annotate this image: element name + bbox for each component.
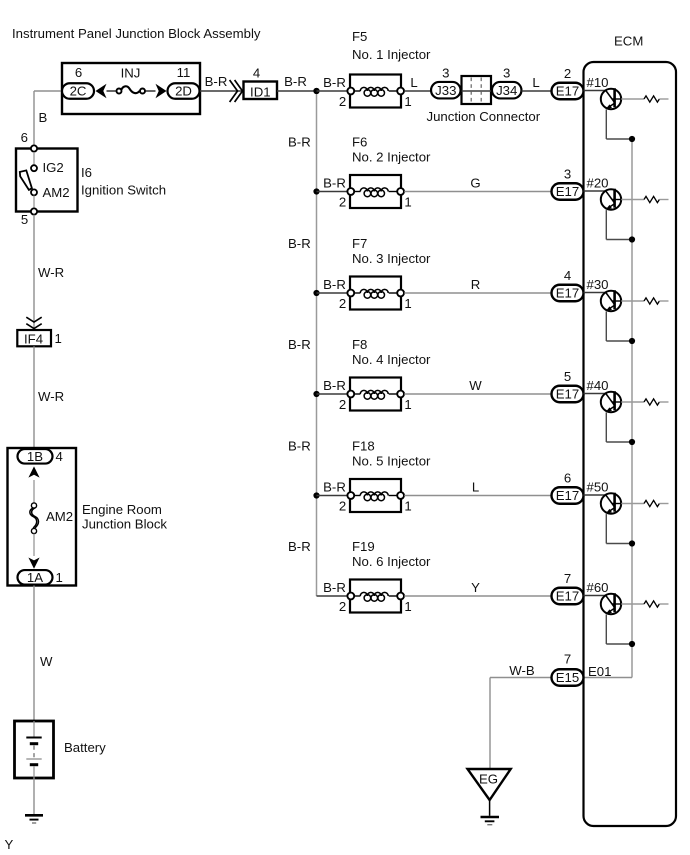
- wire from fuse to arrow: [145, 90, 155, 92]
- injector F6 coil: [353, 191, 360, 193]
- collector segment #60: [613, 603, 622, 605]
- svg-text:F7: F7: [352, 236, 367, 251]
- wire AM2 fuse to 1A: [33, 534, 35, 556]
- injector F8 coil: [353, 393, 360, 395]
- svg-text:R: R: [471, 277, 481, 292]
- wire B-R stub to F8: [317, 393, 351, 395]
- resistor wire #50: [621, 503, 644, 505]
- wire inside switch lower: [33, 196, 35, 209]
- injector F5 coil: [353, 90, 360, 92]
- fuse arrow right: [156, 84, 167, 99]
- wire W-R from IF4 to engine room junction block: [33, 346, 35, 448]
- wire L injector to J33: [404, 90, 431, 92]
- svg-text:7: 7: [564, 652, 571, 667]
- wire E17 to transistor base #20: [584, 190, 606, 192]
- svg-text:L: L: [532, 75, 539, 90]
- svg-text:3: 3: [503, 66, 510, 81]
- connector J34: [492, 82, 522, 99]
- svg-text:1: 1: [56, 570, 63, 585]
- injector F7 pin 1: [397, 290, 404, 297]
- connector 1A: [18, 570, 53, 585]
- resistor wire #40: [621, 401, 644, 403]
- wire E17 to transistor base #60: [584, 595, 606, 597]
- emitter wire #60: [605, 615, 607, 644]
- transistor #60: [601, 594, 621, 614]
- IG2 contact: [31, 165, 37, 171]
- svg-text:F5: F5: [352, 29, 367, 44]
- svg-text:J34: J34: [496, 83, 517, 98]
- connector J33: [431, 82, 461, 99]
- injector F6 box: [350, 175, 401, 208]
- EG ground symbol: [481, 816, 500, 819]
- wire down to EG ground: [489, 678, 491, 770]
- fuse INJ right terminal: [140, 89, 145, 94]
- injector F8 pin 2: [347, 391, 354, 398]
- switch pin 6 terminal: [31, 145, 37, 151]
- transistor #20: [601, 189, 621, 209]
- connector E17 row 2: [552, 183, 584, 200]
- node on bus for F18: [313, 492, 319, 498]
- wire W injector to E17: [404, 393, 551, 395]
- battery plate short 1: [30, 742, 38, 745]
- svg-text:W-B: W-B: [509, 663, 535, 678]
- svg-text:6: 6: [21, 130, 28, 145]
- svg-text:B-R: B-R: [323, 580, 346, 595]
- connector E17 row 3: [552, 285, 584, 302]
- svg-text:#10: #10: [587, 75, 609, 90]
- svg-text:EG: EG: [479, 772, 498, 787]
- collector segment #10: [613, 98, 622, 100]
- svg-text:2: 2: [339, 94, 346, 109]
- svg-text:F8: F8: [352, 337, 367, 352]
- svg-text:J33: J33: [435, 83, 456, 98]
- wire B down to ignition switch: [33, 91, 35, 148]
- wire G injector to E17: [404, 191, 551, 193]
- injector F8 pin 1: [397, 391, 404, 398]
- injector F6 pin 2: [347, 188, 354, 195]
- svg-text:B-R: B-R: [323, 480, 346, 495]
- svg-text:E17: E17: [556, 589, 579, 604]
- connector E17 row 5: [552, 487, 584, 504]
- svg-text:W: W: [40, 654, 53, 669]
- ground EG triangle: [468, 769, 511, 800]
- collector segment #50: [613, 503, 622, 505]
- svg-text:W: W: [469, 378, 482, 393]
- wire B-R stub to F6: [317, 191, 351, 193]
- injector F19 pin 1: [397, 593, 404, 600]
- svg-text:Instrument Panel Junction Bloc: Instrument Panel Junction Block Assembly: [12, 26, 261, 41]
- collector segment #40: [613, 401, 622, 403]
- svg-text:11: 11: [177, 65, 191, 80]
- node on bus for F5: [313, 88, 319, 94]
- fuse arrow up: [28, 466, 39, 477]
- wire W from junction block to battery: [33, 586, 35, 722]
- emitter wire #30: [605, 312, 607, 341]
- svg-text:B-R: B-R: [284, 74, 307, 89]
- battery box: [15, 721, 54, 778]
- resistor wire #60: [621, 603, 644, 605]
- switch lever: [20, 170, 32, 190]
- junction connector box: [462, 76, 492, 104]
- svg-text:B-R: B-R: [205, 74, 228, 89]
- svg-text:E17: E17: [556, 387, 579, 402]
- svg-text:IF4: IF4: [24, 332, 43, 347]
- svg-text:B-R: B-R: [288, 337, 311, 352]
- resistor #50: [644, 500, 659, 506]
- svg-text:2: 2: [564, 66, 571, 81]
- node emitter bus #20: [629, 236, 635, 242]
- svg-text:5: 5: [21, 212, 28, 227]
- connector 1B: [18, 449, 53, 464]
- injector F8 box: [350, 378, 401, 411]
- svg-text:I6: I6: [81, 165, 92, 180]
- svg-text:E17: E17: [556, 84, 579, 99]
- injector F5 box: [350, 75, 401, 108]
- wire W-B from E15 to ground corner: [490, 677, 552, 679]
- svg-text:#60: #60: [587, 580, 609, 595]
- engine room junction block box: [8, 448, 77, 586]
- wire B-R stub to F19: [317, 595, 351, 597]
- svg-text:B-R: B-R: [323, 75, 346, 90]
- svg-text:F18: F18: [352, 439, 375, 454]
- svg-text:3: 3: [442, 66, 449, 81]
- wire from 2C to left corner: [34, 90, 62, 92]
- wire E17 to transistor base #30: [584, 292, 606, 294]
- svg-text:W-R: W-R: [38, 265, 64, 280]
- resistor wire #20: [621, 199, 644, 201]
- svg-text:AM2: AM2: [43, 185, 70, 200]
- svg-text:#20: #20: [587, 176, 609, 191]
- svg-text:B-R: B-R: [323, 277, 346, 292]
- chevron connector above IF4: [26, 317, 41, 322]
- EG ground stem: [489, 800, 491, 816]
- collector segment #20: [613, 199, 622, 201]
- svg-text:1: 1: [404, 397, 411, 412]
- wire battery to ground: [33, 778, 35, 814]
- svg-text:ID1: ID1: [250, 85, 271, 100]
- svg-text:G: G: [470, 176, 480, 191]
- wire L J34 to E17: [522, 90, 552, 92]
- svg-text:IG2: IG2: [43, 160, 64, 175]
- fuse AM2 element: [30, 508, 37, 528]
- svg-text:E01: E01: [588, 664, 611, 679]
- node emitter bus #10: [629, 136, 635, 142]
- fuse IF4 box: [17, 330, 51, 346]
- ECM internal ground bus: [631, 139, 633, 678]
- battery plate long 2: [26, 758, 41, 760]
- svg-text:No. 6 Injector: No. 6 Injector: [352, 554, 431, 569]
- wire B-R stub to F18: [317, 495, 351, 497]
- connector E17 row 6: [552, 588, 584, 605]
- node on bus for F8: [313, 391, 319, 397]
- connector E17 row 4: [552, 386, 584, 403]
- svg-text:Engine Room: Engine Room: [82, 502, 162, 517]
- resistor wire #10: [621, 98, 644, 100]
- svg-text:E15: E15: [556, 670, 579, 685]
- svg-text:3: 3: [564, 167, 571, 182]
- connector E15: [552, 669, 584, 686]
- transistor #30: [601, 291, 621, 311]
- emitter wire #10: [605, 110, 607, 139]
- svg-text:B-R: B-R: [323, 176, 346, 191]
- svg-text:No. 4 Injector: No. 4 Injector: [352, 352, 431, 367]
- node emitter bus #40: [629, 439, 635, 445]
- instrument panel junction block box: [62, 63, 200, 114]
- svg-text:B: B: [39, 110, 48, 125]
- injector F5 pin 1: [397, 88, 404, 95]
- AM2 contact: [31, 189, 37, 195]
- node emitter bus #30: [629, 338, 635, 344]
- svg-text:F19: F19: [352, 539, 375, 554]
- svg-text:1: 1: [55, 331, 62, 346]
- wire to fuse INJ: [107, 90, 117, 92]
- wire Y injector to E17: [404, 595, 551, 597]
- battery ground symbol: [25, 814, 43, 817]
- junction connector dashed lines: [470, 78, 472, 103]
- ECM box: [584, 62, 677, 826]
- svg-text:1B: 1B: [27, 449, 43, 464]
- resistor #40: [644, 399, 659, 405]
- emitter wire #20: [605, 210, 607, 239]
- wire E17 to transistor base #50: [584, 494, 606, 496]
- svg-text:E17: E17: [556, 184, 579, 199]
- transistor #10: [601, 89, 621, 109]
- svg-text:1A: 1A: [27, 570, 43, 585]
- node on B-R bus top: [313, 88, 319, 94]
- collector segment #30: [613, 300, 622, 302]
- svg-text:F6: F6: [352, 135, 367, 150]
- connector 2C: [62, 83, 94, 99]
- svg-text:1: 1: [404, 195, 411, 210]
- inline chevron connector: [230, 80, 238, 102]
- svg-text:Junction Connector: Junction Connector: [427, 109, 541, 124]
- injector F19 box: [350, 580, 401, 613]
- svg-text:#30: #30: [587, 277, 609, 292]
- svg-text:L: L: [472, 480, 479, 495]
- svg-text:1: 1: [404, 94, 411, 109]
- emitter wire #50: [605, 514, 607, 543]
- svg-text:1: 1: [404, 296, 411, 311]
- transistor #50: [601, 493, 621, 513]
- svg-text:2: 2: [339, 499, 346, 514]
- wire inside switch upper: [33, 152, 35, 165]
- fuse INJ element: [121, 86, 139, 93]
- battery internal wire top: [33, 721, 35, 737]
- wire 1B to AM2 fuse: [33, 480, 35, 503]
- injector F18 box: [350, 479, 401, 512]
- svg-text:No. 5 Injector: No. 5 Injector: [352, 454, 431, 469]
- svg-text:No. 3 Injector: No. 3 Injector: [352, 251, 431, 266]
- injector F18 pin 2: [347, 492, 354, 499]
- svg-text:L: L: [410, 75, 417, 90]
- svg-text:2D: 2D: [175, 84, 192, 99]
- svg-text:7: 7: [564, 571, 571, 586]
- wire E17 to transistor base #10: [584, 90, 606, 92]
- fuse AM2 upper terminal: [31, 503, 36, 508]
- wire B-R stub to F5: [317, 90, 351, 92]
- injector F18 coil: [353, 495, 360, 497]
- svg-text:E17: E17: [556, 286, 579, 301]
- wire R injector to E17: [404, 292, 551, 294]
- emitter wire #40: [605, 413, 607, 442]
- battery plate short 2: [30, 763, 38, 766]
- svg-text:B-R: B-R: [288, 236, 311, 251]
- ignition switch I6 box: [16, 149, 78, 212]
- wire B-R stub to F7: [317, 292, 351, 294]
- svg-text:No. 1 Injector: No. 1 Injector: [352, 47, 431, 62]
- wire B-R from ID1 to node: [277, 90, 317, 92]
- injector F7 pin 2: [347, 290, 354, 297]
- fuse AM2 lower terminal: [31, 528, 36, 533]
- svg-text:B-R: B-R: [288, 439, 311, 454]
- svg-text:1: 1: [404, 499, 411, 514]
- svg-text:6: 6: [75, 65, 82, 80]
- wire E15 to ECM bus: [584, 677, 633, 679]
- svg-text:6: 6: [564, 471, 571, 486]
- svg-text:2: 2: [339, 296, 346, 311]
- injector F5 pin 2: [347, 88, 354, 95]
- resistor #20: [644, 196, 659, 202]
- svg-text:AM2: AM2: [46, 509, 73, 524]
- injector F7 coil: [353, 292, 360, 294]
- svg-text:Junction Block: Junction Block: [82, 517, 167, 532]
- injector F19 pin 2: [347, 593, 354, 600]
- wire through junction connector: [461, 90, 493, 92]
- svg-text:ECM: ECM: [614, 34, 643, 49]
- svg-text:2: 2: [339, 195, 346, 210]
- battery internal dashes: [33, 746, 35, 758]
- svg-text:4: 4: [253, 66, 260, 81]
- svg-text:4: 4: [56, 449, 63, 464]
- B-R bus vertical wire: [316, 91, 318, 596]
- transistor #40: [601, 392, 621, 412]
- svg-text:1: 1: [404, 599, 411, 614]
- wire L injector to E17: [404, 495, 551, 497]
- resistor wire #30: [621, 300, 644, 302]
- svg-text:5: 5: [564, 369, 571, 384]
- svg-text:Battery: Battery: [64, 740, 106, 755]
- svg-text:Ignition Switch: Ignition Switch: [81, 183, 166, 198]
- node on bus for F7: [313, 290, 319, 296]
- svg-text:2C: 2C: [70, 84, 87, 99]
- fuse arrow down: [28, 558, 39, 569]
- svg-text:4: 4: [564, 268, 571, 283]
- svg-text:Y: Y: [471, 580, 480, 595]
- switch pin 5 terminal: [31, 208, 37, 214]
- battery internal wire bottom: [33, 766, 35, 778]
- svg-text:#50: #50: [587, 480, 609, 495]
- svg-text:E17: E17: [556, 488, 579, 503]
- resistor #10: [644, 96, 659, 102]
- resistor #60: [644, 601, 659, 607]
- svg-text:W-R: W-R: [38, 389, 64, 404]
- svg-text:2: 2: [339, 599, 346, 614]
- injector F19 coil: [353, 595, 360, 597]
- wire B-R from 2D to ID1: [200, 90, 244, 92]
- svg-text:INJ: INJ: [121, 66, 141, 81]
- injector F7 box: [350, 277, 401, 310]
- svg-text:B-R: B-R: [323, 378, 346, 393]
- wire E17 to transistor base #40: [584, 393, 606, 395]
- battery plate long 1: [26, 737, 41, 739]
- svg-text:Y: Y: [5, 837, 14, 852]
- node on bus for F6: [313, 188, 319, 194]
- svg-text:2: 2: [339, 397, 346, 412]
- connector ID1: [244, 82, 278, 100]
- node emitter bus #50: [629, 540, 635, 546]
- fuse arrow left: [96, 84, 107, 99]
- svg-text:B-R: B-R: [288, 135, 311, 150]
- svg-text:No. 2 Injector: No. 2 Injector: [352, 150, 431, 165]
- wire W-R from switch to IF4: [33, 215, 35, 330]
- injector F18 pin 1: [397, 492, 404, 499]
- svg-text:B-R: B-R: [288, 539, 311, 554]
- resistor #30: [644, 298, 659, 304]
- injector F6 pin 1: [397, 188, 404, 195]
- connector 2D: [168, 83, 200, 99]
- svg-text:#40: #40: [587, 378, 609, 393]
- node emitter bus #60: [629, 641, 635, 647]
- connector E17 row 1: [552, 83, 584, 100]
- fuse INJ left terminal: [117, 89, 122, 94]
